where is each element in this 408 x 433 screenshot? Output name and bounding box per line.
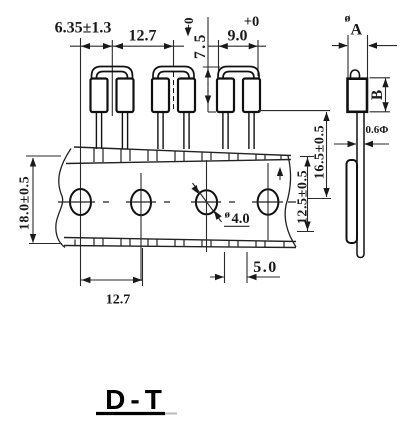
svg-text:5.0: 5.0 bbox=[253, 259, 278, 276]
svg-text:9.0: 9.0 bbox=[228, 28, 248, 45]
svg-text:12.7: 12.7 bbox=[129, 28, 157, 45]
svg-text:ø: ø bbox=[225, 209, 231, 221]
svg-text:18.0±0.5: 18.0±0.5 bbox=[18, 176, 33, 230]
svg-text:4.0: 4.0 bbox=[232, 211, 250, 227]
svg-text:+0: +0 bbox=[244, 14, 260, 30]
svg-text:+0: +0 bbox=[181, 18, 196, 32]
svg-text:7.5: 7.5 bbox=[192, 32, 209, 59]
svg-text:12.5±0.5: 12.5±0.5 bbox=[296, 170, 311, 224]
svg-text:D-T: D-T bbox=[105, 384, 167, 415]
svg-text:16.5±0.5: 16.5±0.5 bbox=[313, 125, 328, 179]
svg-text:A: A bbox=[351, 22, 363, 39]
svg-text:6.35±1.3: 6.35±1.3 bbox=[55, 20, 112, 37]
svg-text:0.6Φ: 0.6Φ bbox=[366, 124, 389, 136]
svg-text:12.7: 12.7 bbox=[106, 293, 131, 308]
svg-text:B: B bbox=[369, 90, 386, 100]
